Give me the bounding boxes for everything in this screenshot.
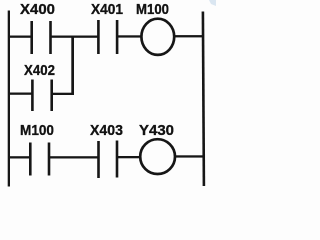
wire branch rail to X402 [8, 93, 33, 95]
scan artifact corner smudge [209, 0, 216, 6]
wire X402 to junction [52, 93, 74, 95]
svg-text:M100: M100 [20, 123, 54, 139]
contact X402 [31, 80, 53, 112]
wire coil Y430 to rail [175, 155, 204, 157]
contact X403 [97, 141, 118, 179]
coil M100 [141, 19, 174, 55]
wire coil M100 to rail [175, 35, 204, 37]
svg-text:X401: X401 [91, 2, 123, 18]
wire X400 to X401 [51, 36, 99, 38]
wire X401 to coil M100 [117, 35, 141, 37]
svg-text:X400: X400 [20, 2, 55, 18]
coil Y430 [140, 139, 175, 174]
wire rung2 rail to M100 [8, 156, 31, 158]
svg-text:M100: M100 [136, 2, 169, 18]
left power rail [8, 11, 10, 187]
contact X400 [30, 21, 51, 54]
wire rung1 rail to X400 [8, 36, 32, 38]
contact X401 [97, 20, 118, 54]
right power rail [202, 12, 206, 187]
svg-text:X402: X402 [24, 63, 55, 79]
wire X403 to coil Y430 [117, 156, 141, 158]
wire M100 to X403 [50, 156, 99, 158]
contact M100 [29, 143, 50, 176]
wire junction branch drop [71, 37, 74, 96]
svg-text:Y430: Y430 [139, 123, 174, 139]
svg-text:X403: X403 [90, 123, 123, 139]
